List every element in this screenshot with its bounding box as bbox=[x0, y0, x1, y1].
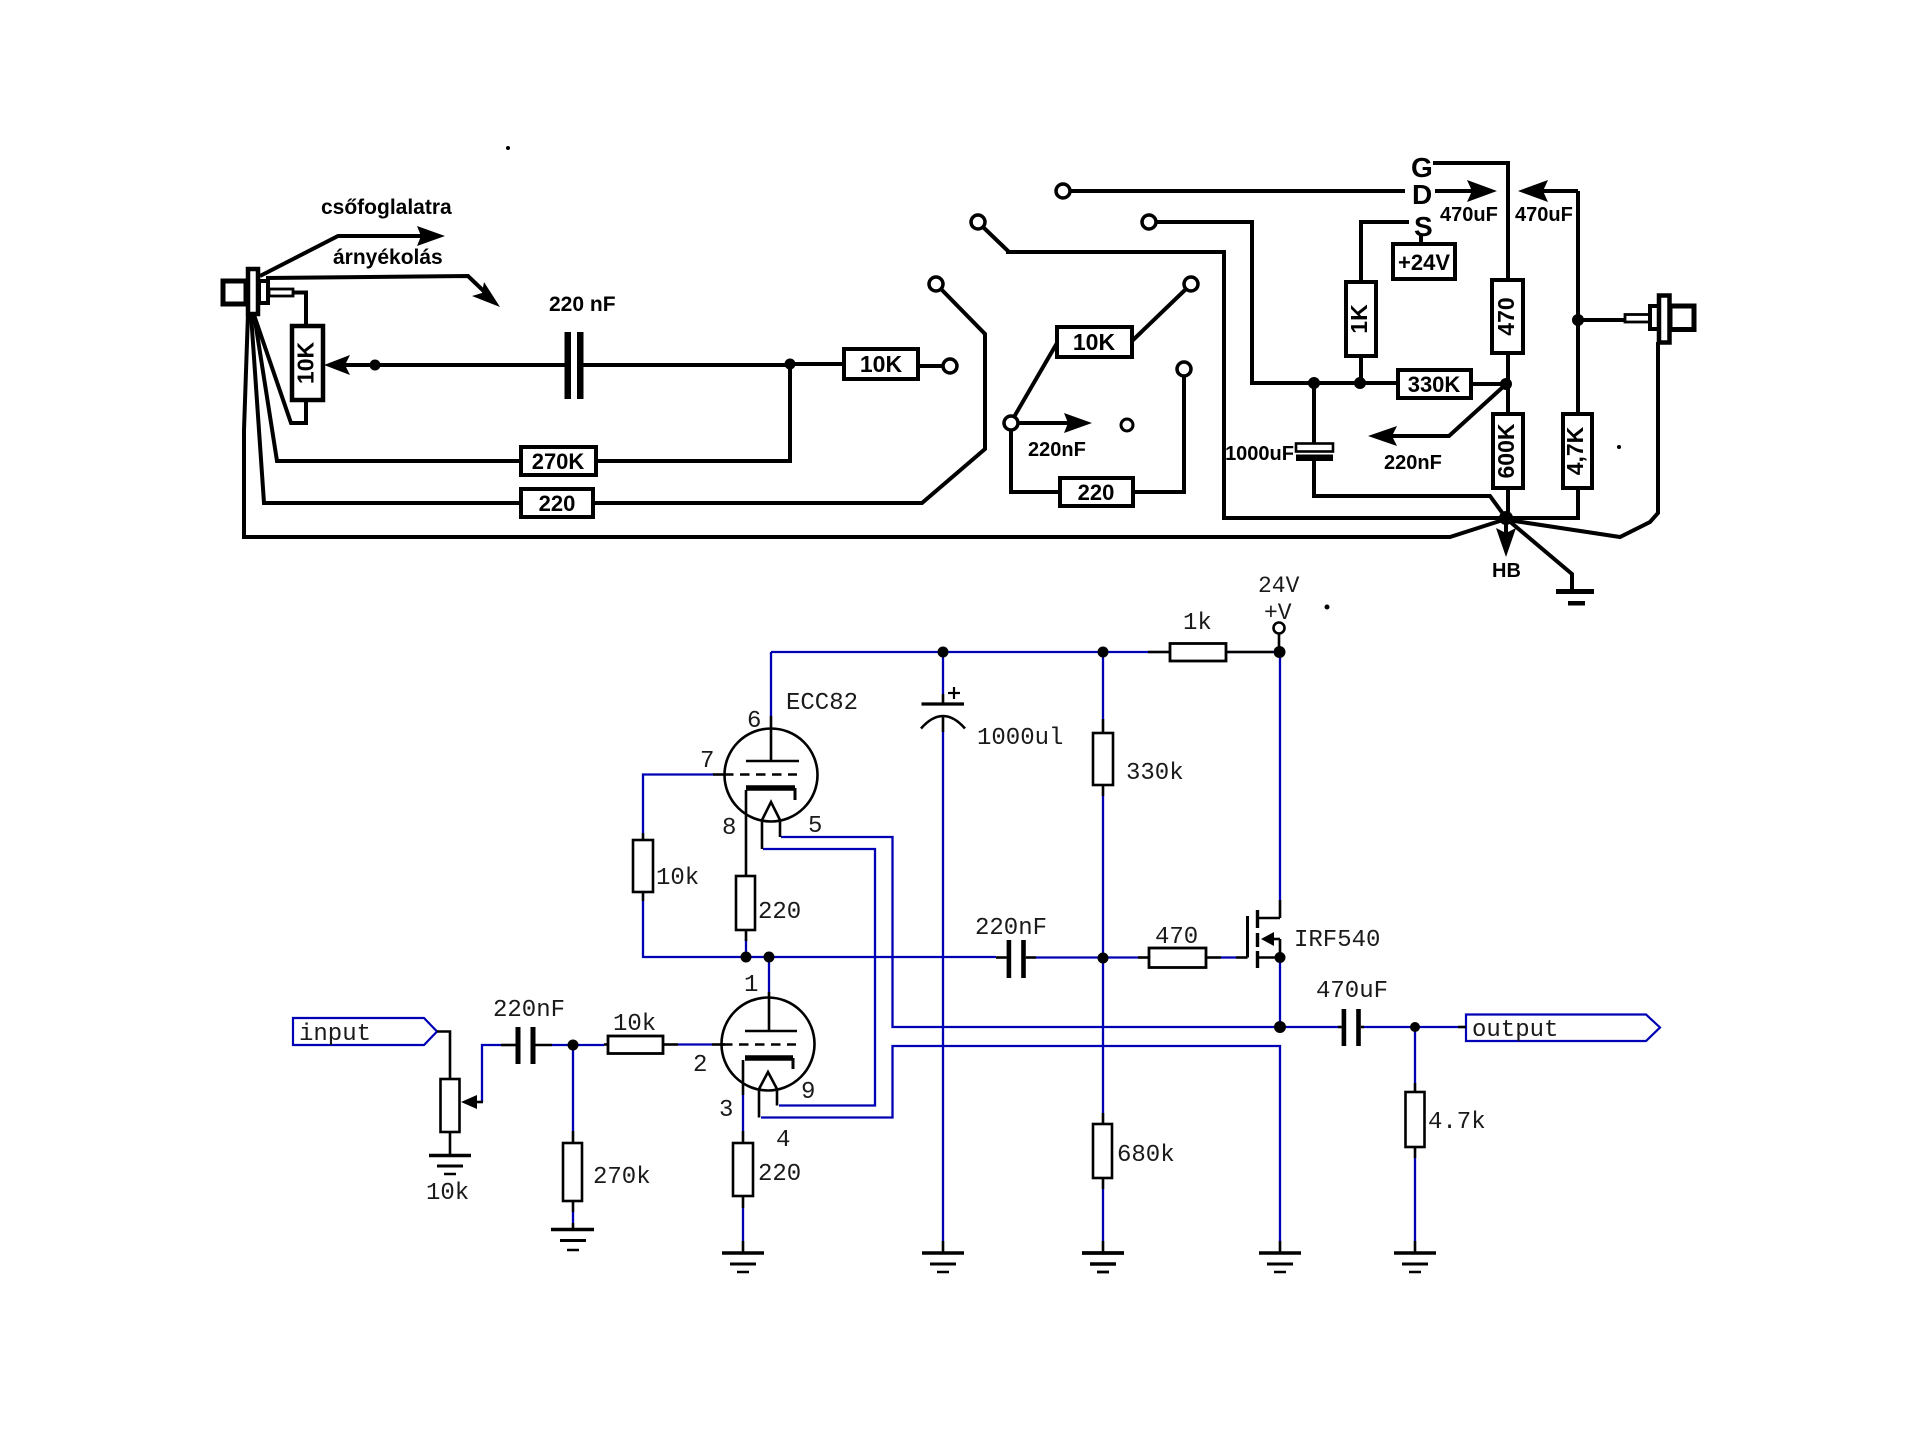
svg-text:220nF: 220nF bbox=[1384, 452, 1442, 474]
pin label 3 bbox=[719, 1097, 733, 1124]
capacitor 470uF-B plates bbox=[1342, 1009, 1361, 1046]
label 220 nF bbox=[549, 293, 616, 316]
svg-text:3: 3 bbox=[719, 1097, 733, 1124]
svg-text:220: 220 bbox=[758, 899, 801, 926]
potentiometer 10k (bottom) bbox=[441, 1079, 484, 1132]
capacitor 1000uF plates bbox=[1296, 444, 1333, 462]
label 1k bbox=[1183, 610, 1212, 637]
node dot H bbox=[1410, 1022, 1420, 1032]
annotation arrow arnyekolas (shield wire) bbox=[266, 276, 500, 307]
wire P1 to D label bbox=[1070, 189, 1405, 193]
wire +V supply rail bbox=[771, 651, 1280, 653]
connector J1 center pin tab bbox=[269, 289, 293, 296]
annotation arrow to csofoglalatra bbox=[260, 226, 445, 276]
wire heater V2 pin5 to V1 pin4 column bbox=[781, 837, 1276, 1027]
tube V2 heater filament bbox=[762, 802, 780, 849]
tube V2 cathode pin 8 bbox=[746, 788, 795, 876]
wire 470 to gate bbox=[1221, 956, 1236, 958]
resistor 10K-C (middle) bbox=[1057, 327, 1132, 357]
svg-text:+24V: +24V bbox=[1398, 250, 1450, 275]
svg-text:5: 5 bbox=[808, 813, 822, 840]
node dot rail-330k bbox=[1098, 647, 1109, 658]
annotation arrow 220nF (right) bbox=[1368, 386, 1504, 446]
node dot C1 bbox=[1308, 377, 1320, 389]
wire 10k bottom to node row bbox=[643, 901, 741, 957]
svg-text:2: 2 bbox=[693, 1052, 707, 1079]
svg-text:7: 7 bbox=[700, 748, 714, 775]
capacitor 1000uF top wire bbox=[1312, 383, 1316, 443]
tag output bbox=[1466, 1015, 1660, 1042]
resistor 270K bbox=[521, 447, 596, 475]
pad circle P4 bbox=[929, 277, 943, 291]
capacitor 220nF-B plates bbox=[1007, 940, 1026, 978]
wire 1000uF top bbox=[942, 652, 944, 694]
pad circle P8 bbox=[1177, 362, 1191, 376]
svg-text:1k: 1k bbox=[1183, 610, 1212, 637]
label 1000ul bbox=[977, 725, 1063, 752]
svg-text:S: S bbox=[1414, 211, 1433, 242]
svg-text:220: 220 bbox=[1078, 480, 1115, 505]
resistor 330k bbox=[1093, 719, 1113, 796]
label 10k (grid leak) bbox=[656, 865, 699, 892]
label 270k bbox=[593, 1164, 651, 1191]
svg-text:470uF: 470uF bbox=[1515, 204, 1573, 226]
node dot B bbox=[785, 359, 796, 370]
label output bbox=[1472, 1017, 1558, 1044]
wire +V terminal stub bbox=[1278, 634, 1281, 648]
svg-text:270k: 270k bbox=[593, 1164, 651, 1191]
svg-text:10k: 10k bbox=[613, 1011, 656, 1038]
svg-text:10K: 10K bbox=[293, 342, 319, 385]
label 470uF right bbox=[1515, 204, 1573, 226]
wire heater V2 left to V1 pin9 bbox=[763, 849, 875, 1106]
resistor 220-B bbox=[1060, 478, 1133, 506]
wire S to +24V box bbox=[1419, 234, 1423, 244]
wire 330k bottom to 220nF node bbox=[1102, 796, 1104, 957]
resistor 1K (vertical) bbox=[1346, 282, 1376, 356]
wire drain column from rail bbox=[1279, 652, 1281, 900]
wire source down to output node bbox=[1279, 962, 1281, 1024]
svg-text:8: 8 bbox=[722, 815, 736, 842]
wire 470uF to output tag bbox=[1364, 1026, 1458, 1028]
transistor Q1 IRF540 bbox=[1236, 900, 1280, 968]
ground 270k bbox=[551, 1230, 594, 1251]
label D bbox=[1412, 179, 1432, 210]
wire 220nF-B right to 470 bbox=[1036, 956, 1138, 958]
resistor 10k series bbox=[604, 1036, 678, 1054]
wire 4,7K bottom to X junction bbox=[1510, 488, 1578, 518]
speck dot 3 bbox=[1617, 445, 1621, 449]
wire 220nF node down to 680k bbox=[1102, 957, 1104, 1113]
node dot N2 bbox=[764, 952, 775, 963]
svg-text:1000ul: 1000ul bbox=[977, 725, 1063, 752]
wire 220-A left to jack shield bbox=[251, 314, 521, 503]
resistor 680k bbox=[1093, 1113, 1112, 1189]
wire S to 1K top bbox=[1361, 222, 1409, 282]
wire node to V1 plate bbox=[768, 957, 770, 992]
wire node B to resistor 10K-B bbox=[790, 362, 844, 366]
label ECC82 bbox=[786, 690, 858, 717]
wire 470 bottom to node E bbox=[1506, 353, 1510, 414]
wire 330k top bbox=[1102, 652, 1104, 719]
resistor 470 (gate) bbox=[1138, 948, 1221, 968]
wire node B down to 270K bbox=[596, 364, 790, 461]
speck dot 1 bbox=[506, 146, 510, 150]
label +V bbox=[1264, 600, 1292, 626]
resistor 220-A bbox=[521, 489, 593, 517]
wire V1 cathode to 220 bbox=[742, 1095, 744, 1131]
wiper arrow into 10K from node bbox=[324, 355, 375, 375]
pin label 9 bbox=[801, 1079, 815, 1106]
node dot E bbox=[1500, 378, 1512, 390]
svg-text:270K: 270K bbox=[532, 449, 585, 474]
resistor 1k bbox=[1148, 644, 1273, 662]
wire jack shield to ground bus (long bottom wire) bbox=[244, 313, 1506, 537]
resistor 270k bbox=[563, 1131, 582, 1229]
label 4.7k bbox=[1428, 1109, 1486, 1136]
capacitor 220nF (top) plates bbox=[565, 332, 584, 399]
label 680k bbox=[1117, 1142, 1175, 1169]
power +24V box bbox=[1393, 244, 1455, 279]
ground 680k bbox=[1082, 1241, 1124, 1272]
label 10k (series) bbox=[613, 1011, 656, 1038]
svg-text:1000uF: 1000uF bbox=[1225, 443, 1294, 465]
label 330k bbox=[1126, 760, 1184, 787]
svg-text:220: 220 bbox=[758, 1161, 801, 1188]
wire 330K right to node E bbox=[1471, 382, 1506, 386]
wire node D1 to output jack pin bbox=[1578, 318, 1625, 322]
resistor 4.7k bbox=[1406, 1083, 1425, 1252]
resistor 220 V1 cathode bbox=[733, 1131, 753, 1208]
label IRF540 bbox=[1294, 927, 1380, 954]
pad circle P1 bbox=[1056, 184, 1070, 198]
svg-text:10K: 10K bbox=[860, 351, 903, 377]
wire right cap column to 4,7K bbox=[1576, 191, 1580, 414]
ground heater bbox=[1259, 1241, 1301, 1272]
wire node row segment bbox=[746, 956, 996, 958]
wire 270K left to jack shield bbox=[254, 314, 521, 461]
svg-text:680k: 680k bbox=[1117, 1142, 1175, 1169]
resistor 330K bbox=[1398, 370, 1471, 398]
tube V2 ECC82 envelope bbox=[725, 729, 818, 822]
capacitor 220nF-B stubs bbox=[996, 956, 1036, 959]
potentiometer 10K (vertical box) bbox=[292, 326, 323, 400]
wire G to 470 top bbox=[1433, 163, 1508, 280]
svg-text:220nF: 220nF bbox=[1028, 439, 1086, 461]
svg-text:HB: HB bbox=[1492, 560, 1521, 582]
pad circle P6 bbox=[1004, 416, 1018, 430]
svg-text:10K: 10K bbox=[1073, 329, 1116, 355]
resistor 4,7K (vertical) bbox=[1563, 414, 1592, 488]
connector J2 output RCA jack body bbox=[1625, 296, 1694, 343]
node dot rail-1000uF bbox=[938, 647, 949, 658]
wire tag stub black bbox=[1458, 1026, 1466, 1029]
svg-text:output: output bbox=[1472, 1017, 1558, 1044]
label 24V bbox=[1258, 573, 1300, 599]
svg-text:470: 470 bbox=[1493, 297, 1519, 335]
wire capacitor to node B bbox=[584, 363, 791, 367]
wire 220-B right up to pad P8 bbox=[1133, 376, 1184, 492]
wire node A1 to capacitor bbox=[375, 363, 565, 367]
label csofoglalatra bbox=[321, 196, 452, 219]
svg-text:470uF: 470uF bbox=[1316, 978, 1388, 1005]
terminal circle +V bbox=[1274, 623, 1285, 634]
wire V2 220 bottom to node bbox=[745, 939, 747, 954]
pad circle P3 bbox=[943, 359, 957, 373]
svg-text:220nF: 220nF bbox=[493, 997, 565, 1024]
tube V1 plate pin 1 bbox=[745, 992, 797, 1031]
wire output node down to 4.7k bbox=[1414, 1030, 1416, 1083]
connector J1 input RCA jack body bbox=[223, 269, 268, 314]
annotation arrow left (470uF right) bbox=[1518, 180, 1578, 202]
node dot G bbox=[1098, 953, 1109, 964]
label 470 (gate) bbox=[1155, 924, 1198, 951]
svg-text:IRF540: IRF540 bbox=[1294, 927, 1380, 954]
svg-text:1: 1 bbox=[744, 972, 758, 999]
node dot N1 bbox=[741, 952, 752, 963]
tube V1 ECC82 envelope bbox=[722, 998, 815, 1091]
label 10k (pot) bbox=[426, 1180, 469, 1207]
pin label 8 bbox=[722, 815, 736, 842]
wire node F down to 270k bbox=[572, 1045, 574, 1131]
wire input tag to pot bbox=[437, 1032, 450, 1080]
resistor 220 V2 cathode bbox=[736, 876, 755, 941]
label 220 (V2) bbox=[758, 899, 801, 926]
wire 1000uF bottom to ground bbox=[942, 731, 944, 1241]
svg-text:4: 4 bbox=[776, 1127, 790, 1154]
node dot output bbox=[1274, 1021, 1286, 1033]
wire output node to 470uF bbox=[1280, 1026, 1338, 1028]
svg-text:árnyékolás: árnyékolás bbox=[333, 246, 443, 269]
ground 220 V1 bbox=[722, 1241, 764, 1272]
svg-text:330K: 330K bbox=[1408, 372, 1461, 397]
wire P6 down to 220-B bbox=[1011, 430, 1060, 492]
label 470uF left bbox=[1440, 204, 1498, 226]
tag input bbox=[293, 1018, 437, 1045]
wire rail down to V2 plate bbox=[770, 652, 772, 716]
svg-text:220: 220 bbox=[539, 491, 576, 516]
wire V2 grid to 10k bbox=[643, 775, 713, 834]
svg-text:6: 6 bbox=[747, 708, 761, 735]
annotation arrow 220nF (middle) bbox=[1018, 413, 1092, 433]
wire 270k bottom to ground bbox=[572, 1212, 574, 1223]
annotation arrow HB bbox=[1496, 522, 1516, 557]
svg-text:1K: 1K bbox=[1346, 304, 1372, 334]
wire 600K bottom to X junction bbox=[1506, 488, 1510, 516]
wire 1K bottom to node C2 bbox=[1359, 356, 1363, 383]
svg-text:4,7K: 4,7K bbox=[1562, 426, 1588, 475]
pin label 5 bbox=[808, 813, 822, 840]
label arnyekolas bbox=[333, 246, 443, 269]
wire 4.7k bottom to ground bbox=[1414, 1158, 1416, 1241]
pin label 2 bbox=[693, 1052, 707, 1079]
wire 10K-B to pad bbox=[918, 364, 943, 368]
wire 10k-B to V1 grid bbox=[678, 1043, 712, 1045]
tube V1 heater filament bbox=[759, 1072, 777, 1118]
wire X junction to output jack shield bbox=[1508, 342, 1658, 537]
wire 10K bottom back to jack shield bbox=[254, 315, 306, 423]
label 220 (V1) bbox=[758, 1161, 801, 1188]
tube V2 grid pin 7 bbox=[713, 773, 797, 776]
speck dot 2 bbox=[1325, 605, 1330, 610]
wire X junction to chassis ground bbox=[1508, 520, 1572, 590]
label G bbox=[1411, 152, 1433, 183]
ground pot bbox=[429, 1156, 471, 1175]
svg-text:330k: 330k bbox=[1126, 760, 1184, 787]
label 220nF (input) bbox=[493, 997, 565, 1024]
tube V2 plate pin 6 bbox=[746, 716, 799, 761]
capacitor 220nF-A stubs bbox=[501, 1044, 552, 1047]
wire pin tab to potentiometer top bbox=[293, 293, 306, 327]
node dot D1 bbox=[1572, 314, 1584, 326]
label 220nF (middle) bbox=[1028, 439, 1086, 461]
svg-text:9: 9 bbox=[801, 1079, 815, 1106]
resistor 600K (vertical) bbox=[1493, 414, 1523, 488]
resistor 470 (vertical) bbox=[1492, 280, 1523, 353]
svg-text:10k: 10k bbox=[656, 865, 699, 892]
pin label 4 bbox=[776, 1127, 790, 1154]
svg-text:10k: 10k bbox=[426, 1180, 469, 1207]
label input bbox=[299, 1021, 371, 1048]
resistor 10K-B (horizontal box) bbox=[844, 349, 918, 379]
ground 1000uF bbox=[922, 1241, 964, 1272]
pin label 1 bbox=[744, 972, 758, 999]
wire pot to ground bbox=[449, 1132, 452, 1154]
tube V1 cathode pin 3 bbox=[743, 1058, 793, 1095]
wire 680k bottom to ground bbox=[1102, 1189, 1104, 1241]
label 220nF (right) bbox=[1384, 452, 1442, 474]
annotation arrow D right (470uF) bbox=[1435, 180, 1497, 202]
label 220nF (coupling) bbox=[975, 915, 1047, 942]
pad circle P5 bbox=[1142, 215, 1156, 229]
pad circle P9 isolated bbox=[1121, 419, 1133, 431]
wire P2 down to X junction (line b) bbox=[983, 227, 1506, 518]
svg-text:csőfoglalatra: csőfoglalatra bbox=[321, 196, 452, 219]
pin label 6 bbox=[747, 708, 761, 735]
wire P5 to 330K row bbox=[1156, 222, 1398, 383]
svg-text:ECC82: ECC82 bbox=[786, 690, 858, 717]
svg-text:input: input bbox=[299, 1021, 371, 1048]
pin label 7 bbox=[700, 748, 714, 775]
node dot A1 bbox=[370, 360, 381, 371]
wire 10K-C left diagonal to pad P6 bbox=[1014, 343, 1057, 417]
wire 220-A right to pad P4 bbox=[593, 289, 985, 503]
wire 10K-C right diagonal to pad P7 bbox=[1132, 289, 1186, 341]
svg-text:220 nF: 220 nF bbox=[549, 293, 616, 316]
capacitor 220nF-A plates bbox=[516, 1027, 536, 1064]
node dot C2 bbox=[1354, 377, 1366, 389]
pad circle P2 bbox=[971, 215, 985, 229]
ground 4.7k bbox=[1394, 1253, 1436, 1272]
svg-text:220nF: 220nF bbox=[975, 915, 1047, 942]
svg-text:470uF: 470uF bbox=[1440, 204, 1498, 226]
wire 220nF-A to node F bbox=[552, 1044, 604, 1046]
wire 1000uF bottom to X junction (line a) bbox=[1314, 461, 1506, 518]
label S bbox=[1414, 211, 1433, 242]
node X junction dot bbox=[1499, 511, 1513, 525]
capacitor 470uF-B stubs bbox=[1338, 1026, 1364, 1029]
wire V1 220 bottom to ground bbox=[742, 1208, 744, 1241]
wire heater V1 pin4 to ground column bbox=[761, 1046, 1280, 1241]
chassis ground symbol bbox=[1556, 589, 1594, 606]
pad circle P7 bbox=[1184, 277, 1198, 291]
node dot F bbox=[568, 1040, 579, 1051]
node dot source bbox=[1275, 952, 1286, 963]
svg-text:470: 470 bbox=[1155, 924, 1198, 951]
svg-text:24V: 24V bbox=[1258, 573, 1300, 599]
label 1000uF bbox=[1225, 443, 1294, 465]
svg-text:4.7k: 4.7k bbox=[1428, 1109, 1486, 1136]
svg-text:600K: 600K bbox=[1493, 423, 1519, 478]
tube V1 grid pin 2 bbox=[712, 1043, 796, 1046]
label HB bbox=[1492, 560, 1521, 582]
label 470uF (output) bbox=[1316, 978, 1388, 1005]
node dot rail-V bbox=[1274, 646, 1286, 658]
wire input tag stub bbox=[482, 1045, 501, 1102]
resistor 10k grid leak V2 bbox=[633, 833, 653, 901]
capacitor 1000uF-B polarized bbox=[921, 687, 965, 732]
svg-text:D: D bbox=[1412, 179, 1432, 210]
